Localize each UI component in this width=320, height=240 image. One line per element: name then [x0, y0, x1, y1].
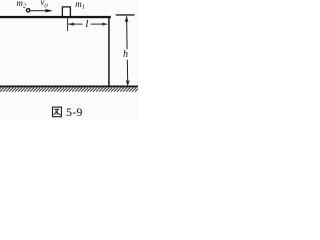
- svg-text:h: h: [123, 49, 128, 60]
- svg-text:5-9: 5-9: [66, 105, 83, 119]
- svg-text:l: l: [85, 18, 88, 30]
